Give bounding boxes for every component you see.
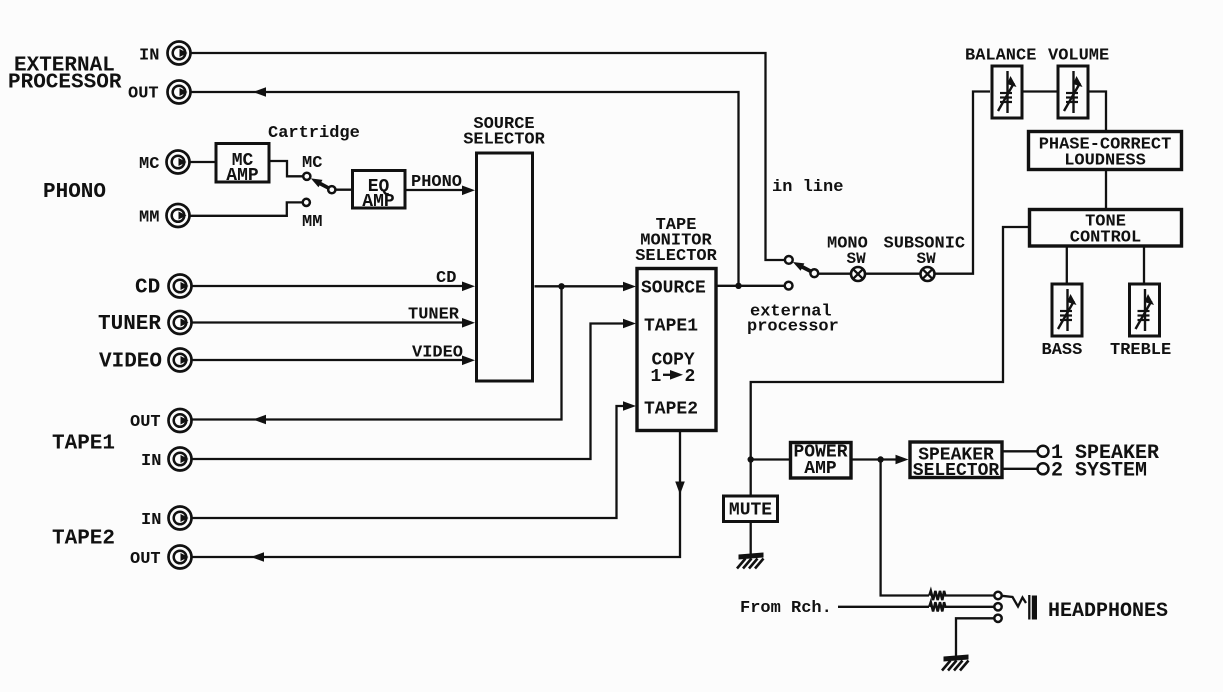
junction ext-out tee xyxy=(735,283,741,289)
svg-text:MUTE: MUTE xyxy=(729,501,772,521)
svg-text:SW: SW xyxy=(917,250,937,268)
contact pivot circle xyxy=(328,186,335,193)
switch MONO crossed circle xyxy=(851,267,865,281)
potentiometer VOLUME xyxy=(1058,66,1088,118)
svg-text:IN: IN xyxy=(141,511,161,530)
svg-text:LOUDNESS: LOUDNESS xyxy=(1064,152,1146,171)
svg-text:PHONO: PHONO xyxy=(43,181,106,204)
contact external-processor bottom circle xyxy=(785,282,793,290)
switch blade in-line xyxy=(793,262,811,271)
connector EXT-OUT jack xyxy=(168,81,191,104)
switch blade cartridge xyxy=(311,178,329,188)
svg-text:VIDEO: VIDEO xyxy=(99,351,162,374)
box SOURCE SELECTOR xyxy=(477,153,533,381)
ground (mute) xyxy=(737,553,764,569)
box SPEAKER SELECTOR xyxy=(910,442,1002,481)
svg-text:From Rch.: From Rch. xyxy=(740,599,832,618)
arrow CD into selector xyxy=(462,282,475,292)
wire mute to ground xyxy=(750,522,752,555)
wire sleeve to ground xyxy=(956,618,994,656)
wire EXT-IN to in-line switch xyxy=(191,53,784,260)
junction headphone feed xyxy=(877,456,883,462)
wire speaker output 2 xyxy=(1002,468,1038,470)
svg-text:HEADPHONES: HEADPHONES xyxy=(1048,600,1168,623)
svg-text:BASS: BASS xyxy=(1042,341,1083,360)
arrow on EXT-OUT wire xyxy=(253,87,266,97)
wire balance to volume xyxy=(1023,90,1059,92)
svg-text:SOURCE: SOURCE xyxy=(641,279,706,299)
wire TAPE2-IN feed xyxy=(192,406,631,518)
svg-text:SELECTOR: SELECTOR xyxy=(463,131,545,150)
wire switch to balance xyxy=(818,92,990,274)
wire junction to power amp xyxy=(751,458,790,460)
svg-text:2: 2 xyxy=(685,367,696,387)
wire volume to phase-correct xyxy=(1088,92,1106,131)
svg-text:TUNER: TUNER xyxy=(408,306,460,325)
connector EXT-IN jack xyxy=(168,42,191,65)
arrow SOURCE into tape monitor xyxy=(623,282,636,292)
arrow TAPE2 into tape monitor xyxy=(623,401,636,411)
svg-text:MM: MM xyxy=(139,209,159,228)
svg-text:MC: MC xyxy=(302,154,322,173)
label 1 to 2 xyxy=(651,367,696,387)
svg-text:CONTROL: CONTROL xyxy=(1070,229,1141,248)
wire VIDEO to selector xyxy=(192,359,470,361)
wire MC jack to MC AMP xyxy=(190,161,215,163)
box PHASE-CORRECT LOUDNESS xyxy=(1029,132,1182,171)
wire TAPE1-OUT feed xyxy=(192,286,562,419)
svg-text:PHONO: PHONO xyxy=(411,173,462,192)
wire tone control to power amp xyxy=(751,227,1028,495)
contact MC circle xyxy=(303,173,310,180)
title SOURCE SELECTOR xyxy=(463,115,545,150)
title TAPE MONITOR SELECTOR xyxy=(635,216,717,266)
wire selector output to tape monitor xyxy=(535,285,632,287)
svg-text:CD: CD xyxy=(135,277,160,300)
connector CD jack xyxy=(169,275,192,298)
svg-text:TUNER: TUNER xyxy=(98,313,161,336)
svg-text:PROCESSOR: PROCESSOR xyxy=(8,72,122,95)
box EQ AMP xyxy=(353,171,406,213)
connector VIDEO jack xyxy=(169,349,192,372)
label SUBSONIC SW xyxy=(884,235,966,269)
svg-text:TAPE1: TAPE1 xyxy=(644,317,698,337)
wire EXT-OUT from junction xyxy=(191,92,739,286)
svg-text:Cartridge: Cartridge xyxy=(268,124,360,143)
arrow PHONO into selector xyxy=(462,186,475,196)
connector MC jack xyxy=(167,151,190,174)
svg-text:BALANCE: BALANCE xyxy=(965,47,1036,66)
arrow TUNER into selector xyxy=(462,318,475,328)
ground (headphones) xyxy=(942,655,969,671)
wire tape monitor SOURCE output xyxy=(716,285,785,287)
svg-text:OUT: OUT xyxy=(128,85,159,104)
svg-text:TREBLE: TREBLE xyxy=(1110,341,1171,360)
junction power amp input xyxy=(748,456,754,462)
svg-text:VIDEO: VIDEO xyxy=(412,344,463,363)
svg-text:IN: IN xyxy=(141,452,161,471)
terminal circle 1 xyxy=(1038,446,1049,457)
svg-text:SW: SW xyxy=(847,250,867,268)
contact tip circle xyxy=(994,592,1001,599)
arrow TAPE1 into tape monitor xyxy=(623,319,636,329)
svg-text:1: 1 xyxy=(651,367,662,387)
contact MM circle xyxy=(303,199,310,206)
wire TAPE1-IN feed xyxy=(192,324,631,460)
arrow down on TAPE2-OUT vertical xyxy=(675,482,685,495)
wire EQ AMP to source selector xyxy=(405,189,470,191)
wire from right channel xyxy=(838,606,929,608)
wire TUNER to selector xyxy=(192,321,470,323)
connector TAPE1-OUT jack xyxy=(169,409,192,432)
contact in-line top circle xyxy=(785,256,793,264)
arrow into speaker selector xyxy=(896,455,909,465)
svg-text:VOLUME: VOLUME xyxy=(1048,47,1109,66)
wire headphone feed xyxy=(881,460,929,596)
wire speaker output 1 xyxy=(1002,450,1038,452)
junction source-output xyxy=(558,283,564,289)
wire tone control to treble xyxy=(1143,246,1145,284)
wire MM jack to MM contact xyxy=(190,202,302,215)
svg-text:MC: MC xyxy=(139,155,159,174)
box POWER AMP xyxy=(791,443,852,480)
svg-text:AMP: AMP xyxy=(804,459,837,479)
svg-text:2 SYSTEM: 2 SYSTEM xyxy=(1051,460,1147,483)
wire CD to selector xyxy=(192,285,470,287)
box TONE CONTROL xyxy=(1030,210,1182,248)
svg-text:IN: IN xyxy=(139,47,159,66)
svg-text:OUT: OUT xyxy=(130,413,161,432)
svg-text:OUT: OUT xyxy=(130,550,161,569)
connector TAPE2-IN jack xyxy=(169,507,192,530)
arrow VIDEO into selector xyxy=(462,356,475,366)
potentiometer BALANCE xyxy=(992,66,1022,118)
headphone jack xyxy=(1002,595,1037,620)
svg-text:TAPE2: TAPE2 xyxy=(644,400,698,420)
wire pivot to EQ AMP xyxy=(336,189,353,191)
potentiometer BASS xyxy=(1052,284,1082,336)
terminal circle 2 xyxy=(1038,463,1049,474)
switch SUBSONIC crossed circle xyxy=(921,267,935,281)
box TAPE MONITOR SELECTOR xyxy=(637,269,716,431)
svg-text:processor: processor xyxy=(747,318,839,337)
svg-text:SELECTOR: SELECTOR xyxy=(635,247,717,266)
wire TAPE2-OUT feed xyxy=(192,432,680,557)
wire resistor to tip contact xyxy=(944,594,994,596)
label EXTERNAL PROCESSOR xyxy=(8,55,122,95)
connector TAPE1-IN jack xyxy=(169,448,192,471)
box MC AMP xyxy=(216,144,269,187)
contact sleeve circle xyxy=(994,615,1001,622)
resistor (right channel) xyxy=(929,602,945,611)
svg-text:TAPE1: TAPE1 xyxy=(52,433,115,456)
wire power amp to speaker selector xyxy=(851,458,904,460)
label MONO SW xyxy=(827,235,868,269)
connector TUNER jack xyxy=(169,311,192,334)
wire resistor to ring contact xyxy=(944,606,994,608)
svg-text:AMP: AMP xyxy=(226,166,259,186)
box MUTE xyxy=(724,496,778,522)
label external processor xyxy=(747,303,839,337)
arrow on TAPE1-OUT wire xyxy=(253,415,266,425)
svg-text:MM: MM xyxy=(302,213,322,232)
connector TAPE2-OUT jack xyxy=(169,546,192,569)
contact in-line pivot circle xyxy=(810,269,818,277)
resistor (left channel) xyxy=(929,591,945,600)
svg-text:CD: CD xyxy=(436,269,456,288)
contact ring circle xyxy=(994,603,1001,610)
svg-text:TAPE2: TAPE2 xyxy=(52,528,115,551)
potentiometer TREBLE xyxy=(1130,284,1160,336)
wire phase-correct to tone control xyxy=(1105,171,1107,210)
connector MM jack xyxy=(167,204,190,227)
wire MC AMP to MC contact xyxy=(269,161,303,176)
svg-text:AMP: AMP xyxy=(362,192,395,212)
svg-text:SELECTOR: SELECTOR xyxy=(913,461,1000,481)
svg-text:in line: in line xyxy=(772,178,843,197)
wire tone control to bass xyxy=(1066,246,1068,284)
arrow on TAPE2-OUT wire xyxy=(251,552,264,562)
